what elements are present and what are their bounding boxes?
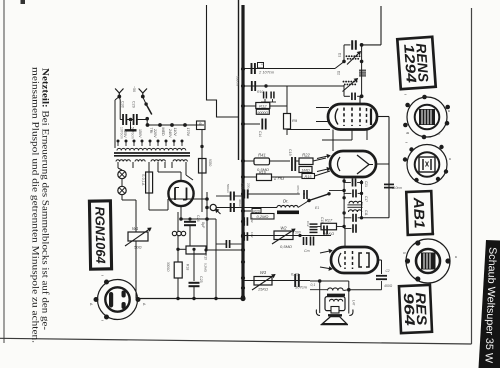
svg-text:R18: R18 <box>186 264 190 270</box>
svg-text:MED: MED <box>161 128 165 137</box>
svg-text:C2: C2 <box>386 269 390 273</box>
svg-text:0,5MΩ: 0,5MΩ <box>280 244 292 249</box>
svg-text:W1: W1 <box>132 226 138 231</box>
svg-text:500: 500 <box>295 231 301 235</box>
svg-text:meinsamen Pluspol und die getr: meinsamen Pluspol und die getrennten Min… <box>30 67 40 343</box>
svg-text:f: f <box>403 94 407 95</box>
svg-text:470cm: 470cm <box>296 185 300 195</box>
svg-text:110V: 110V <box>173 128 177 137</box>
svg-text:C25: C25 <box>199 276 203 283</box>
svg-text:C12: C12 <box>306 221 310 227</box>
svg-text:a: a <box>448 158 452 160</box>
svg-text:A: A <box>89 303 93 306</box>
svg-text:9000Ω: 9000Ω <box>257 111 268 115</box>
svg-text:964: 964 <box>401 292 418 326</box>
svg-text:200cm: 200cm <box>247 183 251 193</box>
svg-text:C26: C26 <box>196 215 200 222</box>
svg-text:R20: R20 <box>253 209 260 213</box>
svg-text:500cm: 500cm <box>235 76 239 86</box>
svg-text:a: a <box>454 256 458 258</box>
svg-text:5: 5 <box>402 252 406 254</box>
svg-text:~50: ~50 <box>132 86 136 92</box>
svg-text:R16: R16 <box>259 170 267 174</box>
svg-text:170V: 170V <box>186 128 190 137</box>
svg-text:TRI: TRI <box>149 128 153 134</box>
svg-text:D2: D2 <box>337 71 341 75</box>
svg-text:C13: C13 <box>320 217 324 223</box>
svg-text:R17: R17 <box>325 218 333 223</box>
svg-text:W3: W3 <box>260 270 267 275</box>
svg-text:R9: R9 <box>292 118 298 123</box>
svg-text:5: 5 <box>260 64 264 66</box>
svg-text:W2: W2 <box>280 226 287 231</box>
svg-text:Netzteil: Bei Erneuerung des S: Netzteil: Bei Erneuerung des Sammelblock… <box>40 68 51 330</box>
svg-text:0,1: 0,1 <box>311 283 316 287</box>
svg-text:6: 6 <box>198 123 202 125</box>
svg-text:C20: C20 <box>240 183 244 189</box>
svg-text:R22: R22 <box>302 153 310 158</box>
svg-text:240V: 240V <box>168 129 172 138</box>
svg-text:f: f <box>100 320 104 321</box>
svg-text:f: f <box>404 142 408 143</box>
svg-text:a: a <box>447 110 451 112</box>
svg-text:C30: C30 <box>121 101 125 108</box>
svg-text:8µF: 8µF <box>201 222 205 229</box>
svg-text:50Ω: 50Ω <box>134 245 142 250</box>
svg-text:0,2MΩ: 0,2MΩ <box>204 263 208 273</box>
svg-text:C19: C19 <box>288 149 292 156</box>
svg-text:R10: R10 <box>257 90 263 94</box>
svg-text:2 10Tcm: 2 10Tcm <box>258 70 275 75</box>
svg-text:RGN1064: RGN1064 <box>92 206 108 264</box>
svg-text:1294: 1294 <box>401 43 420 83</box>
svg-text:D1: D1 <box>338 53 342 57</box>
svg-text:R15: R15 <box>305 175 313 179</box>
svg-text:9350: 9350 <box>208 159 212 167</box>
svg-text:5070cm: 5070cm <box>131 127 135 139</box>
svg-text:C11: C11 <box>364 210 368 216</box>
svg-text:0,23: 0,23 <box>291 272 300 277</box>
svg-text:1070cm: 1070cm <box>120 127 124 139</box>
svg-text:C21: C21 <box>364 181 368 187</box>
svg-text:125V: 125V <box>123 129 127 138</box>
svg-text:300cm: 300cm <box>238 199 242 209</box>
svg-text:C14: C14 <box>258 131 262 137</box>
svg-text:500cm: 500cm <box>226 184 230 194</box>
svg-text:C29: C29 <box>132 101 136 108</box>
svg-text:507cm: 507cm <box>295 285 308 290</box>
svg-text:110cm: 110cm <box>392 186 402 190</box>
svg-text:15KΩ: 15KΩ <box>258 287 268 292</box>
svg-text:f: f <box>100 275 104 276</box>
svg-text:2 HΩ: 2 HΩ <box>273 176 285 181</box>
svg-text:3000Ω: 3000Ω <box>166 262 170 272</box>
svg-text:150V: 150V <box>138 129 142 138</box>
svg-text:1MΩ: 1MΩ <box>301 168 310 173</box>
svg-text:C17: C17 <box>364 196 368 202</box>
svg-text:k: k <box>437 133 441 135</box>
svg-text:A: A <box>142 303 146 306</box>
svg-text:S 0,1A: S 0,1A <box>141 174 145 186</box>
svg-text:R41: R41 <box>258 153 266 158</box>
svg-text:E1: E1 <box>315 206 319 210</box>
svg-text:Dr.: Dr. <box>283 199 289 204</box>
svg-text:3Ω2: 3Ω2 <box>250 217 254 223</box>
svg-text:1Ω2: 1Ω2 <box>250 232 254 238</box>
svg-text:g: g <box>406 132 410 134</box>
svg-text:L47: L47 <box>352 300 356 306</box>
svg-text:Cm: Cm <box>304 249 310 253</box>
svg-text:R19: R19 <box>204 254 208 260</box>
svg-text:R12: R12 <box>259 103 267 108</box>
svg-text:0,2MΩ: 0,2MΩ <box>257 214 269 219</box>
svg-text:220V: 220V <box>153 129 157 138</box>
svg-text:AB1: AB1 <box>410 196 427 229</box>
svg-text:450Ω: 450Ω <box>384 284 393 288</box>
